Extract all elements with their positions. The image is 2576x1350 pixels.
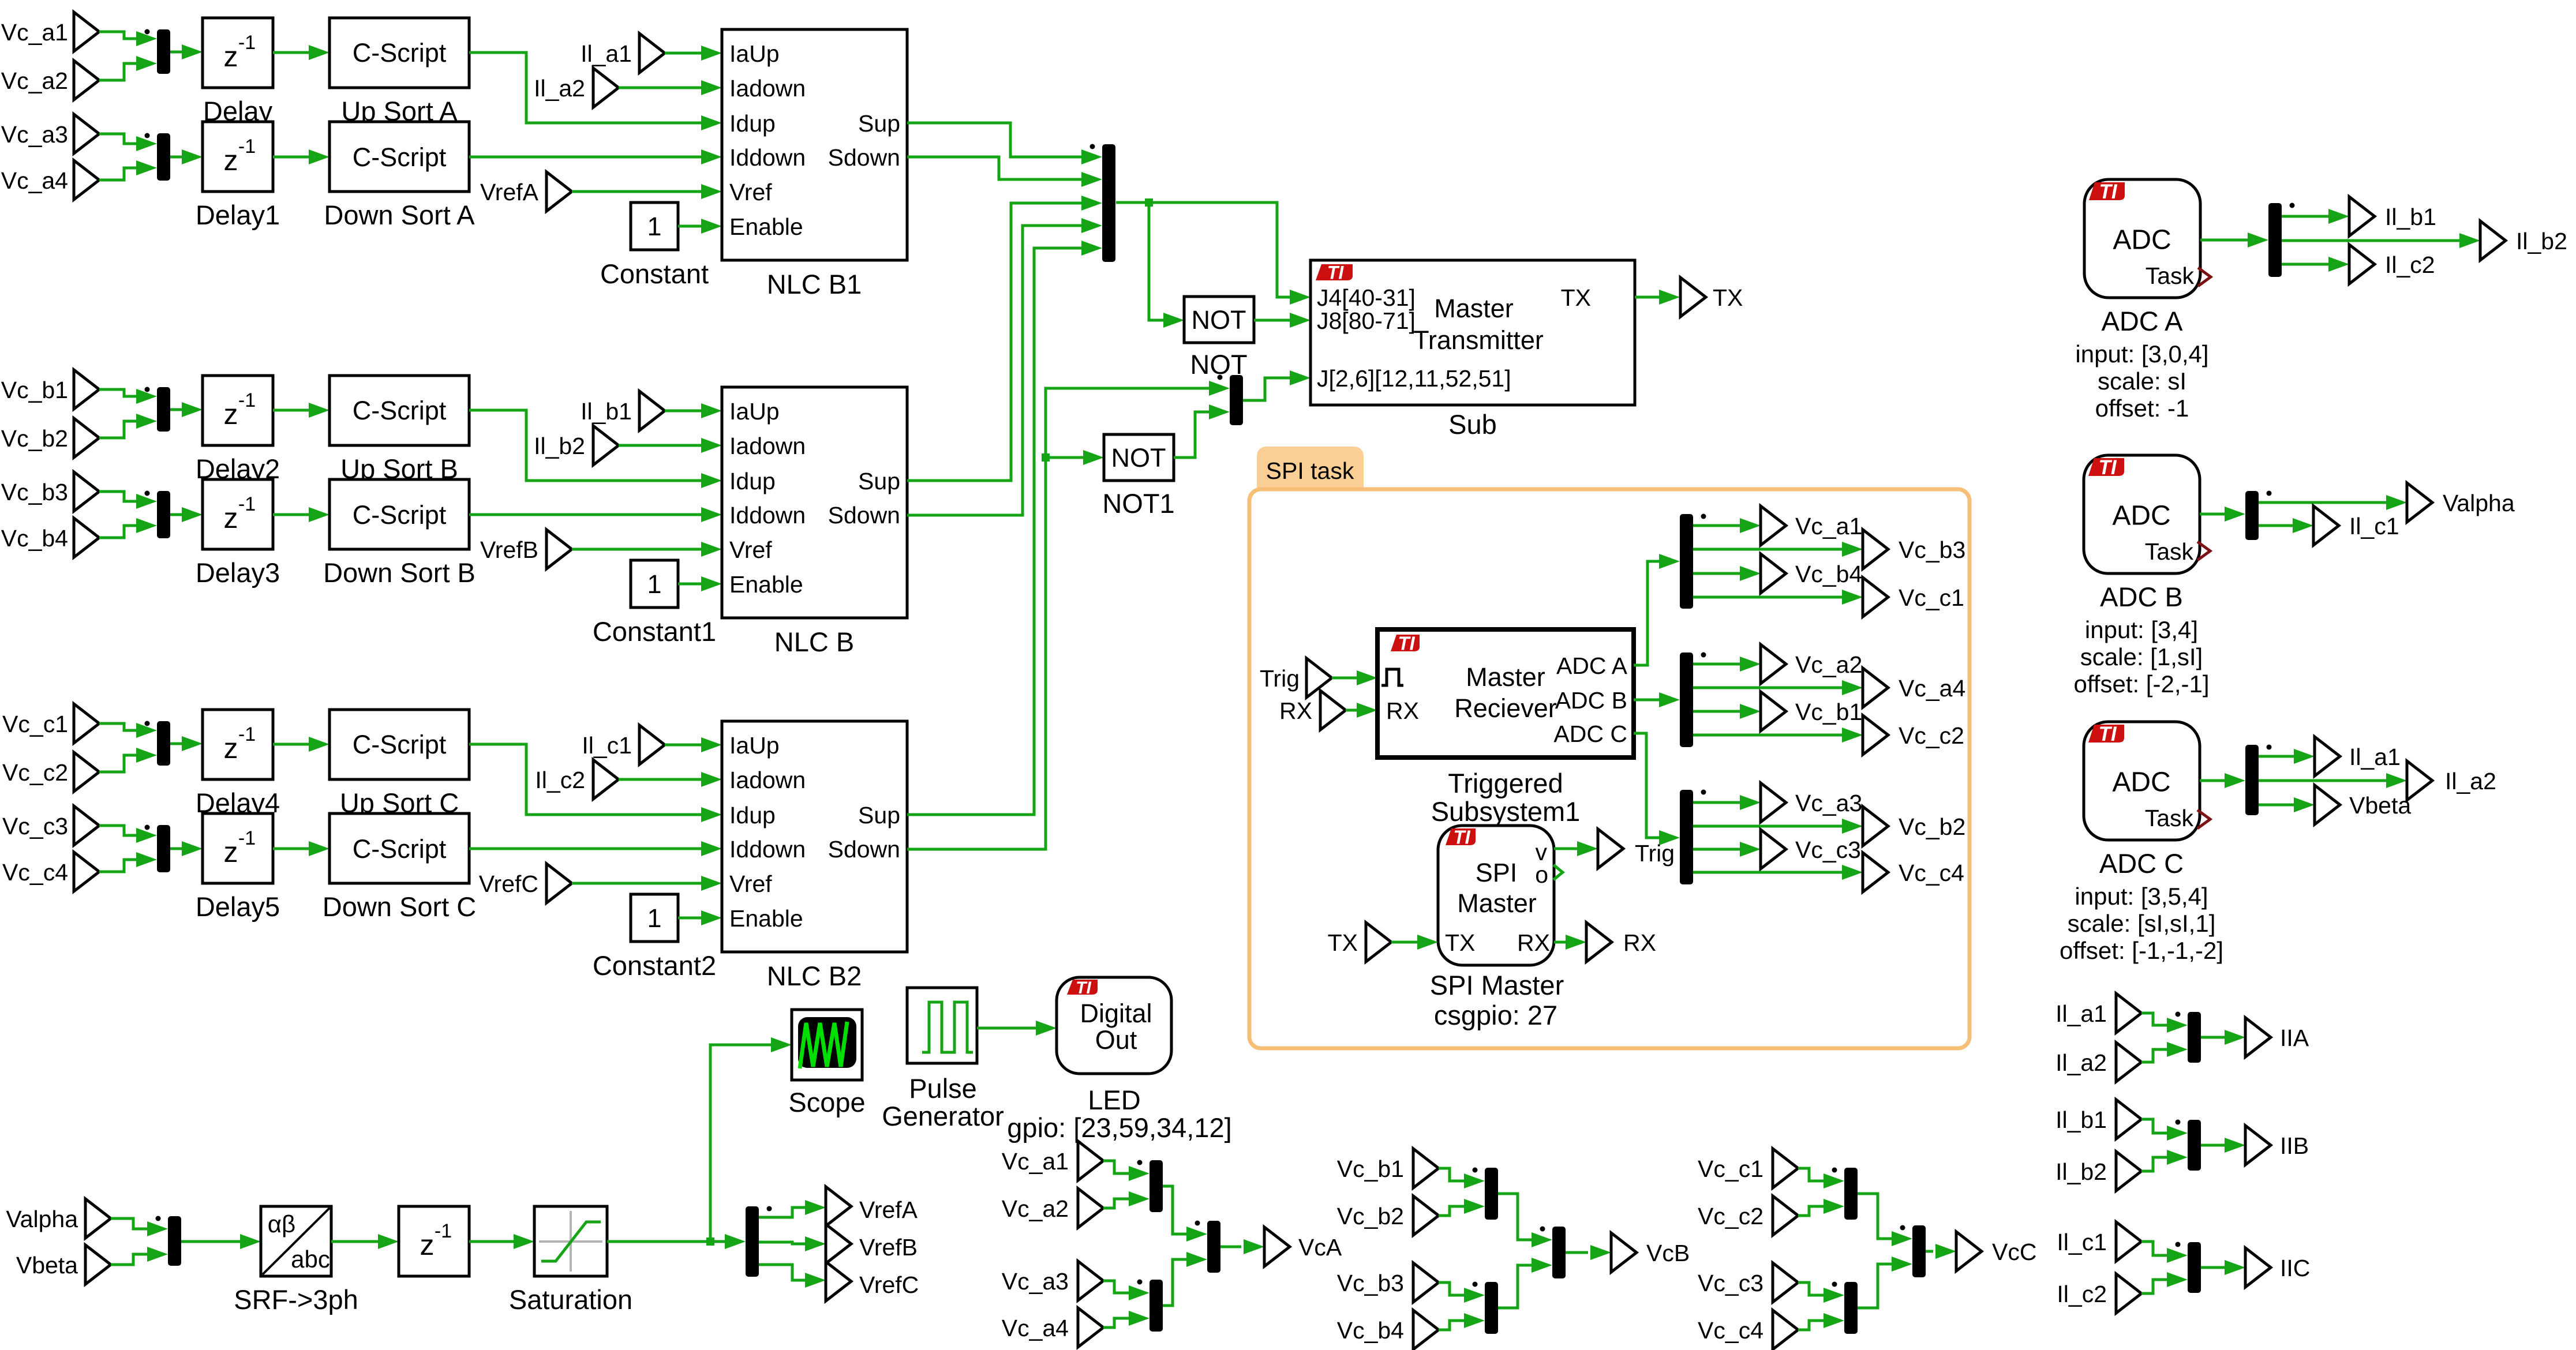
wire mux to IIC [2201, 1266, 2225, 1269]
svg-text:Vc_c1: Vc_c1 [1899, 584, 1964, 611]
svg-text:TX: TX [1561, 284, 1591, 311]
output port VcB [1611, 1233, 1637, 1272]
svg-text:Scope: Scope [788, 1087, 865, 1117]
svg-text:ADC B: ADC B [2100, 582, 2183, 612]
wire mux to Vc_b3 [1693, 548, 1842, 551]
mid mux VcA [1207, 1221, 1220, 1273]
SPI Master block [1438, 826, 1554, 965]
svg-text:scale: [1,sI]: scale: [1,sI] [2080, 643, 2203, 670]
wire Vc_a4 to mux [99, 168, 136, 180]
svg-text:Vc_b4: Vc_b4 [1795, 561, 1862, 587]
input port Il_c1 [639, 725, 665, 764]
svg-text:RX: RX [1517, 929, 1550, 956]
C-Script block Up Sort B [330, 376, 469, 445]
input port Vc_c3 [1773, 1263, 1798, 1302]
wire Vc_b4 to mux [99, 526, 136, 538]
output port Vc_c3 [1761, 830, 1786, 869]
svg-text:Il_b1: Il_b1 [581, 398, 632, 425]
wire Sup C to central mux [907, 248, 1081, 815]
delay block Delay [203, 18, 273, 88]
output port IIA [2245, 1018, 2271, 1057]
output port VrefB [826, 1224, 851, 1263]
output port RX [1586, 922, 1612, 962]
svg-text:Vc_c1: Vc_c1 [1698, 1156, 1763, 1182]
input port Vc_a1 [1078, 1141, 1103, 1180]
svg-text:NLC B: NLC B [774, 627, 854, 657]
o port chevron [1553, 865, 1563, 880]
svg-text:IIA: IIA [2280, 1025, 2309, 1051]
Digital Out block [1057, 977, 1171, 1074]
mux Vc_c3/Vc_c4 [1844, 1282, 1858, 1334]
wire TX out [1635, 296, 1659, 299]
trigger pulse glyph [1381, 669, 1403, 685]
input port Il_c1 [2116, 1222, 2141, 1261]
svg-text:Subsystem1: Subsystem1 [1431, 796, 1581, 827]
svg-text:IIC: IIC [2280, 1255, 2310, 1281]
wire RX to Master Reciever [1346, 709, 1357, 712]
svg-text:Vc_b3: Vc_b3 [1, 479, 68, 505]
wire Vc_a2 to mux [1103, 1199, 1129, 1208]
svg-text:TI: TI [1076, 978, 1091, 997]
wire mux to Vc_b2 [1693, 825, 1842, 828]
delay block Delay2 [203, 376, 273, 445]
svg-text:SPI task: SPI task [1266, 457, 1354, 484]
svg-text:C-Script: C-Script [353, 142, 447, 172]
svg-text:-1: -1 [238, 136, 256, 157]
svg-text:-1: -1 [238, 32, 256, 54]
svg-text:1: 1 [647, 212, 661, 241]
svg-text:offset: -1: offset: -1 [2095, 395, 2189, 422]
svg-text:Vc_c4: Vc_c4 [1899, 860, 1964, 886]
Master Transmitter block [1311, 260, 1635, 405]
input port Vc_c1 [74, 704, 99, 743]
output port Il_a2 [2407, 761, 2432, 800]
wire to Vbeta [2259, 804, 2294, 807]
TI ADC block ADC A [2084, 179, 2200, 298]
input port Il_c2 [593, 760, 619, 799]
output port Vc_a1 [1761, 506, 1786, 545]
svg-text:Master: Master [1457, 888, 1537, 918]
delay block Delay4 [203, 710, 273, 779]
svg-text:Vc_b2: Vc_b2 [1, 425, 68, 452]
svg-text:ADC A: ADC A [2101, 306, 2183, 336]
svg-text:Vc_c2: Vc_c2 [1899, 722, 1964, 749]
svg-text:Il_a1: Il_a1 [581, 40, 632, 67]
svg-text:TX: TX [1445, 929, 1475, 956]
svg-text:Vc_c4: Vc_c4 [1698, 1317, 1763, 1344]
wire Valpha to mux [111, 1218, 147, 1229]
svg-text:ADC C: ADC C [2099, 848, 2184, 879]
svg-text:Enable: Enable [729, 571, 803, 598]
wire Vc_a1 to mux [1103, 1161, 1129, 1173]
input port Il_b2 [593, 426, 619, 465]
wire Vc_b2 to mux [1439, 1206, 1464, 1216]
svg-text:Vc_c1: Vc_c1 [2, 711, 68, 737]
wire Delay5 to Down Sort C [273, 847, 309, 850]
wire Constant2 to Enable [678, 917, 701, 920]
SPI mux 1 [1680, 514, 1693, 609]
wire Il_c2 to Iadown [619, 778, 701, 781]
input port Vc_b2 [1413, 1196, 1439, 1235]
wire mux to Vc_a2 [1693, 663, 1740, 666]
C-Script block Down Sort A [330, 122, 469, 192]
svg-text:Il_c1: Il_c1 [582, 732, 632, 759]
svg-text:VrefA: VrefA [480, 179, 539, 205]
svg-text:IaUp: IaUp [729, 398, 780, 425]
wire Delay4 to Up Sort C [273, 743, 309, 746]
wire ADC C out to mux [2200, 779, 2225, 782]
wire Il_c1 to IaUp [665, 744, 701, 747]
svg-text:Vbeta: Vbeta [16, 1252, 78, 1278]
wire Vc_a4 to mux [1103, 1318, 1129, 1327]
svg-text:Il_c1: Il_c1 [2057, 1229, 2107, 1255]
delay block Delay5 [203, 813, 273, 883]
svg-text:Trig: Trig [1260, 665, 1300, 692]
svg-text:Sub: Sub [1448, 409, 1497, 440]
input port Il_a2 [593, 68, 619, 107]
input port Vc_a3 [74, 114, 99, 153]
svg-text:Vc_c3: Vc_c3 [2, 813, 68, 839]
svg-text:Sdown: Sdown [828, 836, 900, 862]
wire Delay3 to Down Sort B [273, 513, 309, 516]
Task chevron [2198, 268, 2211, 286]
svg-text:input: [3,4]: input: [3,4] [2085, 616, 2198, 643]
wire Il_b2 to Iadown [619, 444, 701, 447]
svg-text:Vc_b2: Vc_b2 [1337, 1203, 1404, 1229]
mux Vc_b1/Vc_b2 [1485, 1168, 1498, 1220]
mux for IIC [2188, 1242, 2201, 1293]
svg-text:VcB: VcB [1646, 1240, 1690, 1266]
svg-text:TI: TI [1327, 262, 1345, 283]
TI ADC block ADC C [2084, 722, 2200, 840]
input port Il_c2 [2116, 1274, 2141, 1313]
wire Vc_b1 to mux [99, 389, 136, 396]
svg-text:1: 1 [647, 569, 661, 599]
wire Pulse Generator to Digital Out [977, 1027, 1036, 1030]
wire Delay2 to Up Sort B [273, 409, 309, 412]
svg-text:SPI Master: SPI Master [1430, 970, 1564, 1000]
svg-text:IaUp: IaUp [729, 40, 780, 67]
svg-text:Vc_b2: Vc_b2 [1899, 813, 1965, 840]
svg-text:Iddown: Iddown [729, 144, 806, 171]
mux for Vc_c1/Vc_c2 [157, 721, 170, 766]
svg-text:RX: RX [1279, 697, 1312, 724]
wire Sdown C up to J mux [907, 388, 1209, 849]
wire Sup B to central mux [907, 203, 1081, 481]
output port Vc_a3 [1761, 783, 1786, 822]
delay block z-1 [399, 1206, 469, 1276]
svg-text:Iddown: Iddown [729, 836, 806, 862]
wire Vc_b4 to mux [1439, 1321, 1464, 1330]
wire Il_b2 to mux [2141, 1157, 2167, 1171]
svg-text:Il_c2: Il_c2 [2385, 252, 2435, 278]
svg-text:Il_c1: Il_c1 [2349, 513, 2399, 539]
svg-text:Vc_b1: Vc_b1 [1795, 699, 1862, 725]
svg-text:-1: -1 [435, 1220, 452, 1242]
svg-text:Vc_a3: Vc_a3 [1, 121, 68, 148]
J mux (2 inputs) [1230, 375, 1243, 425]
wire to Il_c1 [2259, 524, 2293, 527]
svg-text:TI: TI [2099, 181, 2117, 203]
svg-text:Vc_a4: Vc_a4 [1002, 1315, 1069, 1341]
wire Il_b1 to mux [2141, 1119, 2167, 1133]
svg-text:z: z [224, 40, 238, 73]
svg-text:Sdown: Sdown [828, 144, 900, 171]
junction to scope [706, 1237, 714, 1246]
ADC B mux [2245, 491, 2259, 540]
wire Trig to Master Reciever [1332, 677, 1357, 680]
wire mux to Delay2 [170, 408, 182, 411]
input port Vc_c2 [74, 752, 99, 792]
wire Vc_c1 to mux [1798, 1168, 1824, 1181]
wire Il_c1 to mux [2141, 1242, 2167, 1255]
svg-text:Il_a2: Il_a2 [534, 75, 585, 102]
svg-text:z: z [224, 144, 238, 177]
svg-text:Il_b1: Il_b1 [2055, 1107, 2107, 1133]
output port Il_c2 [2349, 245, 2375, 284]
svg-text:Down Sort B: Down Sort B [323, 557, 475, 588]
wire mux to Vc_c2 [1693, 734, 1842, 737]
svg-text:ADC: ADC [2112, 767, 2170, 797]
svg-text:IaUp: IaUp [729, 732, 780, 759]
output port Vc_b2 [1863, 807, 1888, 846]
delay block Delay1 [203, 122, 273, 192]
svg-text:gpio: [23,59,34,12]: gpio: [23,59,34,12] [1007, 1112, 1231, 1143]
wire SRF to delay [331, 1240, 378, 1243]
svg-text:Digital: Digital [1080, 999, 1152, 1028]
svg-text:Task: Task [2145, 538, 2194, 565]
wire central mux output to J4 port [1116, 202, 1290, 297]
wire mux to Vc_a1 [1693, 524, 1740, 527]
svg-text:VrefC: VrefC [859, 1272, 919, 1298]
svg-text:C-Script: C-Script [353, 500, 447, 530]
svg-text:ADC A: ADC A [1556, 652, 1628, 679]
svg-text:Iadown: Iadown [729, 433, 806, 459]
wire Il_a1 to mux [2141, 1013, 2167, 1025]
svg-text:z: z [420, 1229, 435, 1261]
svg-text:Task: Task [2145, 805, 2194, 831]
junction on mux output [1145, 198, 1153, 207]
input port VrefB [546, 530, 572, 569]
wire Down Sort C out to Iddown [469, 847, 701, 850]
input port Vc_a2 [1078, 1188, 1103, 1228]
input port Vc_b3 [74, 472, 99, 511]
input port Vc_c4 [1773, 1310, 1798, 1349]
wire Vc_b3 to mux [1439, 1282, 1464, 1295]
C-Script block Down Sort C [330, 813, 469, 883]
output port Il_c1 [2313, 506, 2339, 545]
svg-text:Valpha: Valpha [2443, 490, 2515, 516]
svg-text:z: z [224, 502, 238, 534]
wire to VrefA [759, 1207, 805, 1217]
output port Vc_c1 [1863, 577, 1888, 617]
mid mux VcB [1552, 1227, 1566, 1278]
SPI mux 3 [1680, 790, 1693, 884]
output port Il_a1 [2315, 737, 2340, 776]
svg-text:Constant1: Constant1 [593, 616, 716, 647]
wire Il_c2 to mux [2141, 1280, 2167, 1293]
SPI task panel [1257, 447, 1364, 489]
input port Vc_b2 [74, 418, 99, 457]
svg-text:TI: TI [2098, 723, 2117, 745]
wire ADC A out to mux [2200, 239, 2248, 242]
output port Valpha [2407, 483, 2432, 522]
wire upper mux to VcA mux [1163, 1186, 1186, 1234]
svg-text:Il_a1: Il_a1 [2349, 744, 2401, 770]
NOT1 block [1104, 434, 1174, 481]
svg-text:Down Sort A: Down Sort A [324, 200, 475, 230]
svg-text:Sup: Sup [858, 468, 900, 494]
svg-text:Delay1: Delay1 [196, 200, 280, 230]
input port Il_b2 [2116, 1152, 2141, 1191]
svg-text:Out: Out [1095, 1025, 1137, 1055]
wire Sdown A to central mux [907, 157, 1081, 179]
wire upper mux to VcC mux [1858, 1194, 1892, 1239]
svg-text:RX: RX [1623, 929, 1656, 956]
svg-text:Vc_c3: Vc_c3 [1698, 1270, 1763, 1296]
wire mux to Delay [170, 51, 182, 54]
wire mux to Vc_b1 [1693, 710, 1740, 713]
svg-text:VrefC: VrefC [479, 871, 538, 897]
wire Vc_a1 to mux [99, 32, 136, 39]
svg-text:abc: abc [291, 1246, 330, 1273]
input port Il_b1 [639, 391, 665, 430]
svg-text:Idup: Idup [729, 802, 776, 828]
wire VrefC to Vref [572, 882, 701, 885]
wire Vc_c1 to mux [99, 723, 136, 730]
svg-text:TI: TI [1398, 632, 1415, 654]
svg-text:Sup: Sup [858, 802, 900, 828]
svg-text:VcA: VcA [1298, 1234, 1342, 1261]
svg-text:TI: TI [2098, 456, 2117, 479]
SRF->3ph block [261, 1206, 331, 1276]
output port Il_b1 [2349, 197, 2375, 236]
input port Il_b1 [2116, 1100, 2141, 1139]
svg-text:Iadown: Iadown [729, 75, 806, 102]
svg-text:C-Script: C-Script [353, 396, 447, 425]
input port Vc_b3 [1413, 1263, 1439, 1302]
wire Down Sort B out to Iddown [469, 513, 701, 516]
wire lower mux to VcC mux [1858, 1264, 1892, 1308]
wire mux to Vc_c4 [1693, 871, 1842, 874]
wire ADC B to mux [1634, 699, 1659, 702]
svg-text:scale: sI: scale: sI [2098, 367, 2186, 395]
wire mux to Vc_b4 [1693, 572, 1740, 575]
wire Vc_b1 to mux [1439, 1168, 1464, 1181]
ADC A mux [2268, 203, 2282, 277]
svg-text:Vref: Vref [729, 179, 772, 205]
input port Vc_b4 [74, 518, 99, 557]
input port Vc_b4 [1413, 1310, 1439, 1349]
constant block Constant2 [631, 894, 678, 942]
svg-text:Delay3: Delay3 [196, 557, 280, 588]
constant block Constant1 [631, 560, 678, 607]
Vref demux [746, 1206, 759, 1277]
wire NOT to J8 port [1254, 319, 1290, 322]
mux Vc_b3/Vc_b4 [1485, 1282, 1498, 1334]
delay block Delay3 [203, 479, 273, 549]
wire Delay to Up Sort A [273, 51, 309, 54]
mux for Vc_c3/Vc_c4 [157, 825, 170, 872]
svg-text:NLC B1: NLC B1 [767, 269, 862, 299]
svg-text:ADC: ADC [2112, 500, 2170, 531]
input port Vc_b1 [1413, 1149, 1439, 1188]
svg-text:ADC: ADC [2113, 224, 2171, 255]
output port IIB [2245, 1126, 2271, 1165]
svg-text:Vc_b4: Vc_b4 [1337, 1317, 1404, 1344]
wire Delay1 to Down Sort A [273, 156, 309, 159]
svg-text:NLC B2: NLC B2 [767, 961, 862, 991]
wire to VrefC [759, 1265, 805, 1280]
svg-text:-1: -1 [238, 493, 256, 515]
svg-text:csgpio: 27: csgpio: 27 [1434, 1000, 1557, 1030]
svg-text:-1: -1 [238, 723, 256, 745]
wire Vc_c3 to mux [99, 826, 136, 835]
wire Vc_b3 to mux [99, 492, 136, 501]
svg-text:z: z [224, 732, 238, 764]
ADC C mux [2245, 745, 2259, 815]
svg-text:Delay5: Delay5 [196, 891, 280, 922]
svg-text:IIB: IIB [2280, 1132, 2309, 1159]
wire to Valpha [2259, 501, 2386, 504]
svg-text:-1: -1 [238, 389, 256, 411]
svg-text:Valpha: Valpha [6, 1206, 78, 1232]
wire Vbeta to mux [111, 1254, 147, 1265]
output port Vc_b1 [1761, 692, 1786, 731]
subsystem block NLC B2 [722, 721, 907, 952]
svg-text:Vref: Vref [729, 537, 772, 563]
svg-text:Il_c2: Il_c2 [535, 767, 585, 793]
svg-text:C-Script: C-Script [353, 834, 447, 864]
wire Down Sort A out to Iddown [469, 156, 701, 159]
svg-text:SRF->3ph: SRF->3ph [234, 1284, 358, 1315]
mux Vc_c1/Vc_c2 [1844, 1168, 1858, 1220]
svg-text:Constant2: Constant2 [593, 950, 716, 981]
wire to Il_a2 [2259, 779, 2386, 782]
NOT block [1184, 297, 1254, 343]
svg-text:-1: -1 [238, 827, 256, 849]
svg-text:Master: Master [1466, 662, 1545, 692]
output port Vc_b4 [1761, 554, 1786, 593]
svg-text:TX: TX [1713, 284, 1743, 311]
input port VrefA [546, 172, 572, 211]
svg-text:Vc_a1: Vc_a1 [1795, 513, 1862, 539]
wire mux to Vc_a3 [1693, 801, 1740, 804]
svg-text:Vc_c3: Vc_c3 [1795, 837, 1861, 863]
wire NOT1 to J mux [1174, 412, 1209, 457]
svg-text:C-Script: C-Script [353, 38, 447, 67]
wire TX to SPI Master [1391, 941, 1417, 944]
output port Vc_a4 [1863, 668, 1888, 707]
svg-text:J8[80-71]: J8[80-71] [1317, 307, 1416, 334]
svg-text:Vc_a2: Vc_a2 [1, 67, 68, 94]
svg-text:Vc_a2: Vc_a2 [1002, 1195, 1069, 1222]
wire upper mux to VcB mux [1498, 1194, 1532, 1240]
svg-text:Reciever: Reciever [1454, 693, 1557, 723]
svg-text:Task: Task [2146, 262, 2195, 289]
wire ADC A to mux [1634, 561, 1659, 665]
output port Vc_a2 [1761, 644, 1786, 684]
wire to output VcA [1220, 1246, 1241, 1248]
wire Il_a2 to Iadown [619, 87, 701, 89]
svg-text:Vc_b4: Vc_b4 [1, 525, 68, 552]
svg-text:J[2,6][12,11,52,51]: J[2,6][12,11,52,51] [1317, 365, 1511, 392]
wire Vc_a3 to mux [1103, 1281, 1129, 1293]
wire mux to Vc_c3 [1693, 848, 1740, 851]
TI ADC block ADC B [2084, 455, 2200, 573]
wire mux to SRF block [181, 1240, 240, 1243]
mux Vc_a1/Vc_a2 [1150, 1160, 1163, 1212]
